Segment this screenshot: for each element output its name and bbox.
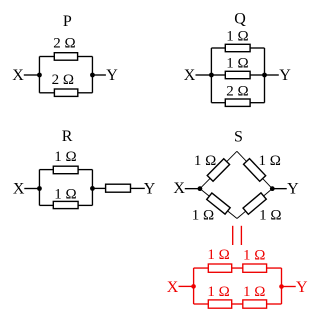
svg-text:1 Ω: 1 Ω [207,284,229,300]
resistor 1 ohm top (R) [53,166,78,174]
svg-text:1 Ω: 1 Ω [226,28,248,44]
svg-text:Y: Y [296,279,308,296]
wire X lead (S) [185,188,200,190]
resistor 1 ohm bottom-right (S) [243,193,266,214]
wire top-left (R) [39,169,53,171]
wire bottom-left (P) [39,92,54,94]
wire bottom-left edge (S) [200,189,237,219]
wire bottom-right edge (S) [237,189,272,219]
wire bottom-left (R) [39,204,53,206]
resistor 2 ohm top (P) [54,53,77,61]
wire top-right (R) [78,169,92,171]
resistor 2 ohm bottom (Q) [225,99,250,106]
wire Y lead (Q) [265,74,279,76]
wire right vertical (equivalent circuit) [281,268,283,304]
wire Y lead (equivalent circuit) [282,286,296,288]
svg-text:X: X [173,180,185,197]
wire to series resistor (R) [92,187,105,189]
wire middle-left (Q) [211,74,225,76]
wire top-middle (equivalent circuit) [232,267,243,269]
svg-text:Y: Y [106,67,118,84]
svg-text:Q: Q [234,11,246,28]
node right vertex (S) [270,186,275,191]
wire X lead (P) [24,74,40,76]
wire top-right (equivalent circuit) [267,267,282,269]
wire top-right edge (S) [237,151,272,188]
wire right vertical (R) [91,170,93,206]
svg-text:Y: Y [287,180,299,197]
wire right vertical (Q) [264,48,266,103]
node right junction (Q) [262,73,267,78]
node right junction (P) [90,73,95,78]
wire top-left (equivalent circuit) [194,267,209,269]
svg-text:1 Ω: 1 Ω [259,207,281,223]
resistor 1 ohm bottom-left (equivalent circuit) [208,300,231,308]
wire bottom-right (equivalent circuit) [267,303,282,305]
svg-text:X: X [167,279,179,296]
svg-text:1 Ω: 1 Ω [226,55,248,71]
wire top-right (P) [78,56,93,58]
svg-text:1 Ω: 1 Ω [194,153,216,169]
wire middle-right (Q) [250,74,264,76]
wire left vertical (R) [38,170,40,206]
resistor 1 ohm top-right (S) [244,159,266,182]
wire top-left edge (S) [200,151,237,188]
wire left vertical (P) [38,57,40,93]
svg-text:X: X [12,67,24,84]
resistor 1 ohm bottom (R) [53,201,78,208]
node right junction (R) [90,186,95,191]
resistor 1 ohm top-left (S) [207,159,229,181]
resistor 1 ohm middle (Q) [225,71,250,78]
svg-text:1 Ω: 1 Ω [243,247,265,263]
node left junction (R) [37,186,42,191]
wire bottom-middle (equivalent circuit) [232,303,243,305]
wire bottom-right (P) [78,92,93,94]
node right junction (equivalent circuit) [279,284,284,289]
svg-text:1 Ω: 1 Ω [54,186,76,202]
wire Y lead (P) [92,74,105,76]
node left junction (P) [37,73,42,78]
resistor 1 ohm top (Q) [225,44,250,51]
svg-text:P: P [63,13,72,30]
resistor 2 ohm bottom (P) [54,89,77,96]
wire bottom-right (Q) [250,102,264,104]
wire top-right (Q) [250,47,264,49]
node left junction (Q) [209,73,214,78]
svg-text:Y: Y [144,181,156,198]
svg-text:1 Ω: 1 Ω [243,284,265,300]
equivalence mark left bar [232,226,234,245]
svg-text:2 Ω: 2 Ω [52,72,74,88]
svg-text:R: R [62,128,73,145]
wire X lead (equivalent circuit) [179,285,194,287]
svg-text:X: X [13,181,25,198]
resistor series unlabeled (R) [106,184,131,192]
resistor 1 ohm bottom-right (equivalent circuit) [243,300,267,308]
svg-text:2 Ω: 2 Ω [53,36,75,52]
equivalence mark right bar [240,226,242,245]
wire bottom-left (Q) [211,102,225,104]
wire X lead (R) [24,188,39,190]
node left vertex (S) [198,186,203,191]
svg-text:Y: Y [279,67,291,84]
resistor 1 ohm bottom-left (S) [207,193,230,214]
wire X lead (Q) [196,74,212,76]
wire bottom-right (R) [78,204,92,206]
svg-text:1 Ω: 1 Ω [192,207,214,223]
wire top-left (P) [39,56,54,58]
wire top-left (Q) [211,47,225,49]
svg-text:1 Ω: 1 Ω [54,149,76,165]
svg-text:1 Ω: 1 Ω [258,153,280,169]
wire left vertical (Q) [210,48,212,103]
svg-text:X: X [184,67,196,84]
wire left vertical (equivalent circuit) [193,268,195,304]
resistor 1 ohm top-right (equivalent circuit) [243,264,267,272]
wire bottom-left (equivalent circuit) [194,303,209,305]
wire right vertical (P) [91,57,93,93]
wire Y lead (R) [131,187,145,189]
svg-text:S: S [234,128,243,145]
wire Y lead (S) [272,188,286,190]
svg-text:1 Ω: 1 Ω [207,247,229,263]
resistor 1 ohm top-left (equivalent circuit) [208,264,231,272]
svg-text:2 Ω: 2 Ω [226,83,248,99]
node left junction (equivalent circuit) [191,284,196,289]
